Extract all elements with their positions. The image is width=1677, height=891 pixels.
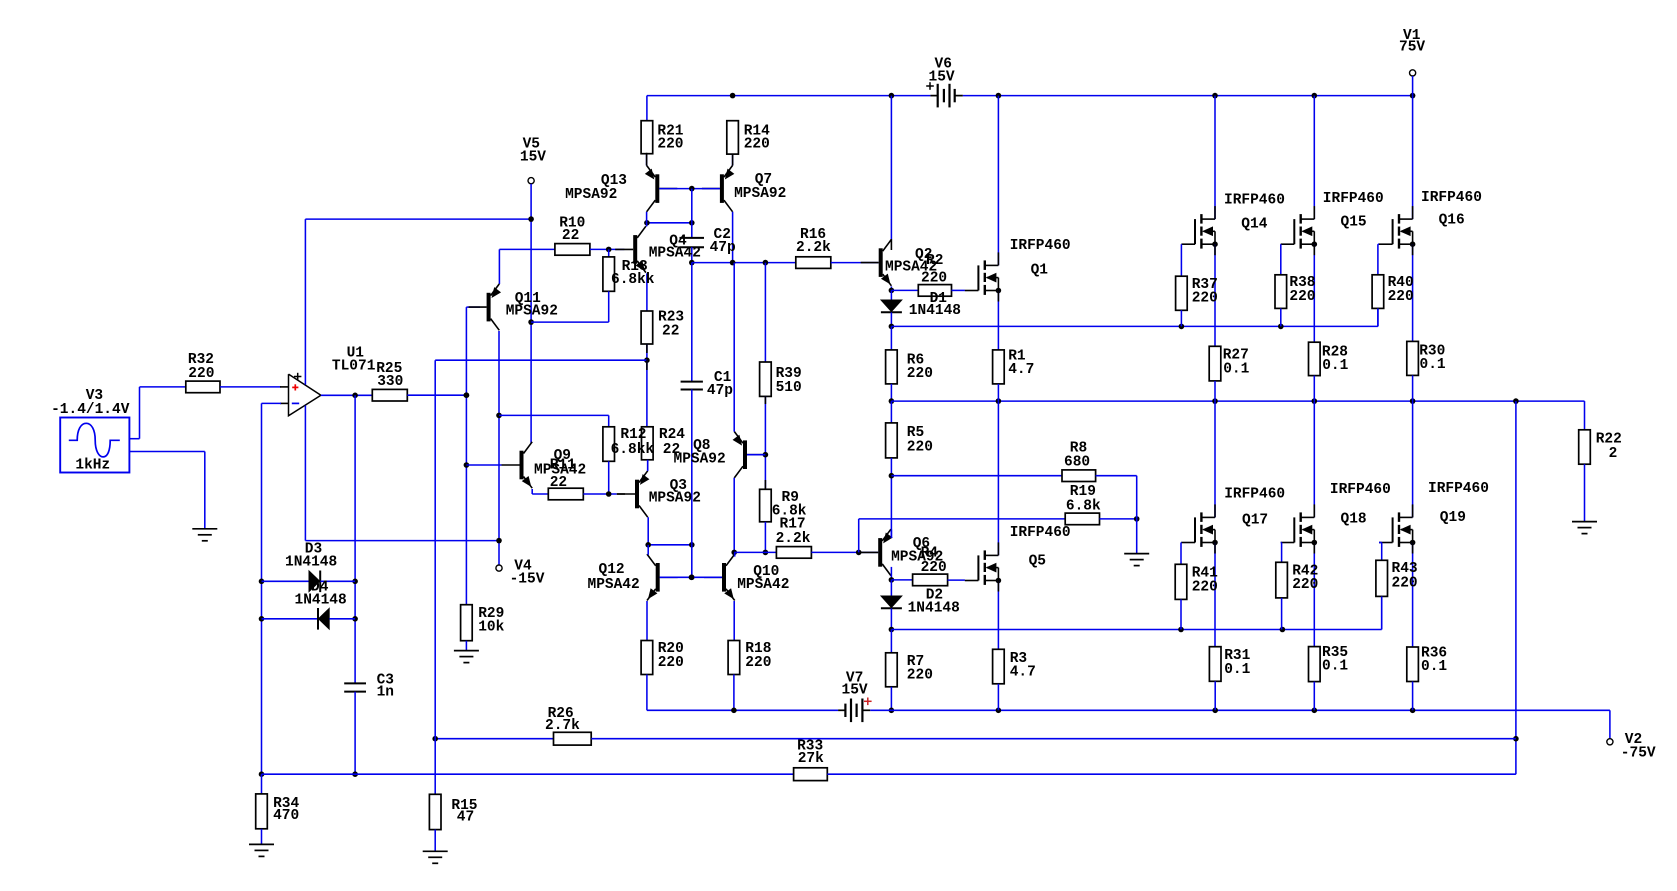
- svg-text:MPSA42: MPSA42: [649, 246, 701, 262]
- svg-text:2.7k: 2.7k: [545, 718, 580, 734]
- svg-text:MPSA92: MPSA92: [734, 186, 786, 202]
- svg-text:47p: 47p: [710, 240, 736, 256]
- svg-text:220: 220: [657, 137, 683, 153]
- svg-text:IRFP460: IRFP460: [1323, 191, 1384, 207]
- svg-text:220: 220: [745, 655, 771, 671]
- svg-text:0.1: 0.1: [1224, 662, 1250, 678]
- svg-text:IRFP460: IRFP460: [1428, 481, 1489, 497]
- svg-text:220: 220: [907, 366, 933, 382]
- svg-text:1N4148: 1N4148: [908, 601, 960, 617]
- svg-text:15V: 15V: [929, 69, 955, 85]
- svg-text:6.8kk: 6.8kk: [611, 272, 655, 288]
- svg-text:220: 220: [188, 366, 214, 382]
- svg-text:-75V: -75V: [1621, 745, 1656, 761]
- svg-text:220: 220: [1192, 579, 1218, 595]
- svg-text:Q1: Q1: [1031, 262, 1049, 278]
- svg-text:330: 330: [377, 374, 403, 390]
- svg-text:220: 220: [1192, 291, 1218, 307]
- svg-text:MPSA42: MPSA42: [737, 577, 789, 593]
- svg-text:MPSA42: MPSA42: [588, 577, 640, 593]
- svg-text:IRFP460: IRFP460: [1330, 482, 1391, 498]
- svg-text:1N4148: 1N4148: [909, 303, 961, 319]
- svg-text:0.1: 0.1: [1420, 357, 1446, 373]
- svg-text:470: 470: [273, 808, 299, 824]
- svg-text:220: 220: [1392, 575, 1418, 591]
- svg-text:220: 220: [907, 440, 933, 456]
- svg-text:Q18: Q18: [1341, 511, 1367, 527]
- svg-text:1kHz: 1kHz: [75, 458, 110, 474]
- svg-text:IRFP460: IRFP460: [1224, 487, 1285, 503]
- svg-text:220: 220: [658, 655, 684, 671]
- svg-text:Q15: Q15: [1341, 214, 1367, 230]
- svg-text:Q14: Q14: [1241, 216, 1267, 232]
- svg-text:IRFP460: IRFP460: [1224, 192, 1285, 208]
- svg-text:4.7: 4.7: [1010, 665, 1036, 681]
- svg-text:R5: R5: [907, 425, 924, 441]
- svg-text:6.8kk: 6.8kk: [611, 442, 655, 458]
- svg-text:220: 220: [1388, 289, 1414, 305]
- svg-text:MPSA92: MPSA92: [506, 303, 558, 319]
- svg-text:47: 47: [457, 809, 474, 825]
- svg-text:22: 22: [550, 475, 567, 491]
- svg-text:2.2k: 2.2k: [796, 240, 831, 256]
- svg-text:MPSA92: MPSA92: [565, 187, 617, 203]
- svg-text:MPSA92: MPSA92: [674, 451, 726, 467]
- svg-text:510: 510: [776, 380, 802, 396]
- svg-text:22: 22: [663, 442, 680, 458]
- svg-text:Q16: Q16: [1439, 212, 1465, 228]
- svg-text:15V: 15V: [842, 683, 868, 699]
- svg-text:R12: R12: [620, 427, 646, 443]
- svg-text:0.1: 0.1: [1421, 659, 1447, 675]
- svg-text:220: 220: [744, 137, 770, 153]
- svg-text:220: 220: [921, 270, 947, 286]
- svg-text:Q12: Q12: [599, 562, 625, 578]
- svg-text:IRFP460: IRFP460: [1010, 238, 1071, 254]
- svg-text:22: 22: [662, 323, 679, 339]
- svg-text:IRFP460: IRFP460: [1421, 190, 1482, 206]
- svg-text:75V: 75V: [1399, 40, 1425, 56]
- svg-text:TL071: TL071: [332, 359, 376, 375]
- svg-text:22: 22: [562, 228, 579, 244]
- svg-text:MPSA92: MPSA92: [649, 491, 701, 507]
- svg-text:0.1: 0.1: [1322, 358, 1348, 374]
- svg-text:220: 220: [1292, 577, 1318, 593]
- svg-text:4.7: 4.7: [1008, 362, 1034, 378]
- svg-text:2.2k: 2.2k: [776, 531, 811, 547]
- svg-text:1N4148: 1N4148: [295, 593, 347, 609]
- svg-text:-1.4/1.4V: -1.4/1.4V: [51, 402, 130, 418]
- svg-text:-15V: -15V: [510, 572, 545, 588]
- svg-text:2: 2: [1609, 446, 1618, 462]
- svg-text:Q19: Q19: [1440, 510, 1466, 526]
- svg-text:220: 220: [1289, 289, 1315, 305]
- svg-text:15V: 15V: [520, 150, 546, 166]
- svg-text:0.1: 0.1: [1223, 362, 1249, 378]
- svg-text:IRFP460: IRFP460: [1010, 525, 1071, 541]
- svg-text:1n: 1n: [377, 684, 394, 700]
- svg-text:680: 680: [1064, 455, 1090, 471]
- svg-text:Q17: Q17: [1242, 512, 1268, 528]
- svg-text:220: 220: [921, 560, 947, 576]
- svg-text:220: 220: [907, 668, 933, 684]
- svg-text:47p: 47p: [707, 383, 733, 399]
- svg-text:1N4148: 1N4148: [285, 555, 337, 571]
- svg-text:10k: 10k: [478, 620, 504, 636]
- svg-text:27k: 27k: [798, 751, 824, 767]
- svg-text:R24: R24: [659, 427, 685, 443]
- svg-text:Q5: Q5: [1029, 554, 1046, 570]
- svg-text:6.8k: 6.8k: [1066, 499, 1101, 515]
- svg-text:0.1: 0.1: [1322, 658, 1348, 674]
